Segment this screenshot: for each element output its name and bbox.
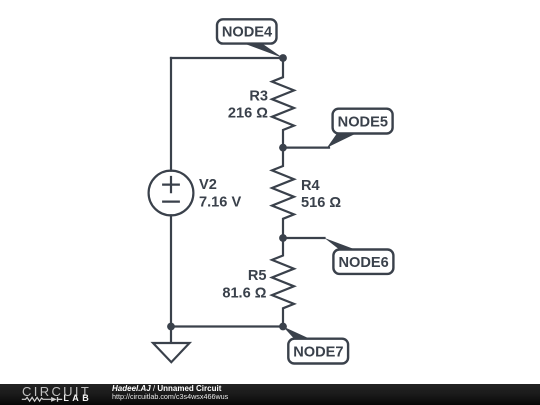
node C junction dot (283,238)	[279, 234, 287, 242]
wire left vertical upper (to V2 top)	[170, 58, 172, 171]
svg-text:516 Ω: 516 Ω	[301, 195, 341, 211]
wire left vertical lower (V2 bottom to bottom rail)	[170, 215, 172, 326]
logo resistor symbol	[22, 397, 51, 401]
resistor R4	[272, 148, 294, 238]
voltage source V2	[149, 171, 194, 216]
node NODE7 callout tail	[283, 327, 313, 341]
node NODE4 callout box	[217, 19, 277, 43]
node A junction dot (283,58)	[279, 54, 287, 62]
svg-text:R5: R5	[248, 268, 267, 284]
svg-text:NODE5: NODE5	[338, 114, 388, 130]
resistor R3	[272, 58, 294, 148]
resistor R5	[272, 238, 294, 327]
svg-text:V2: V2	[199, 177, 217, 193]
wire bottom horizontal	[171, 325, 283, 327]
node B junction dot (283,147.6)	[279, 144, 287, 152]
wire stub node6	[283, 237, 325, 239]
wire stub node5	[283, 147, 329, 149]
node NODE7 callout box	[288, 339, 348, 364]
svg-text:NODE7: NODE7	[293, 344, 343, 360]
node E junction dot (171,326.5)	[167, 323, 175, 331]
svg-text:NODE6: NODE6	[338, 255, 388, 271]
CircuitLab logo	[0, 384, 100, 405]
svg-text:NODE4: NODE4	[222, 25, 273, 41]
svg-text:81.6 Ω: 81.6 Ω	[222, 286, 266, 302]
svg-text:R4: R4	[301, 178, 321, 194]
node D junction dot (283,326.5)	[279, 323, 287, 331]
node NODE4 callout tail	[240, 42, 283, 58]
logo diode symbol	[51, 397, 57, 402]
footer bar	[0, 384, 540, 405]
node NODE5 callout box	[333, 109, 393, 134]
node NODE6 callout tail	[325, 238, 358, 251]
svg-text:7.16 V: 7.16 V	[199, 195, 241, 211]
node NODE5 callout tail	[327, 134, 356, 148]
node NODE6 callout box	[333, 250, 393, 274]
svg-text:R3: R3	[249, 89, 268, 105]
ground	[153, 327, 190, 363]
svg-text:216 Ω: 216 Ω	[228, 106, 268, 122]
wire top horizontal	[171, 57, 283, 59]
